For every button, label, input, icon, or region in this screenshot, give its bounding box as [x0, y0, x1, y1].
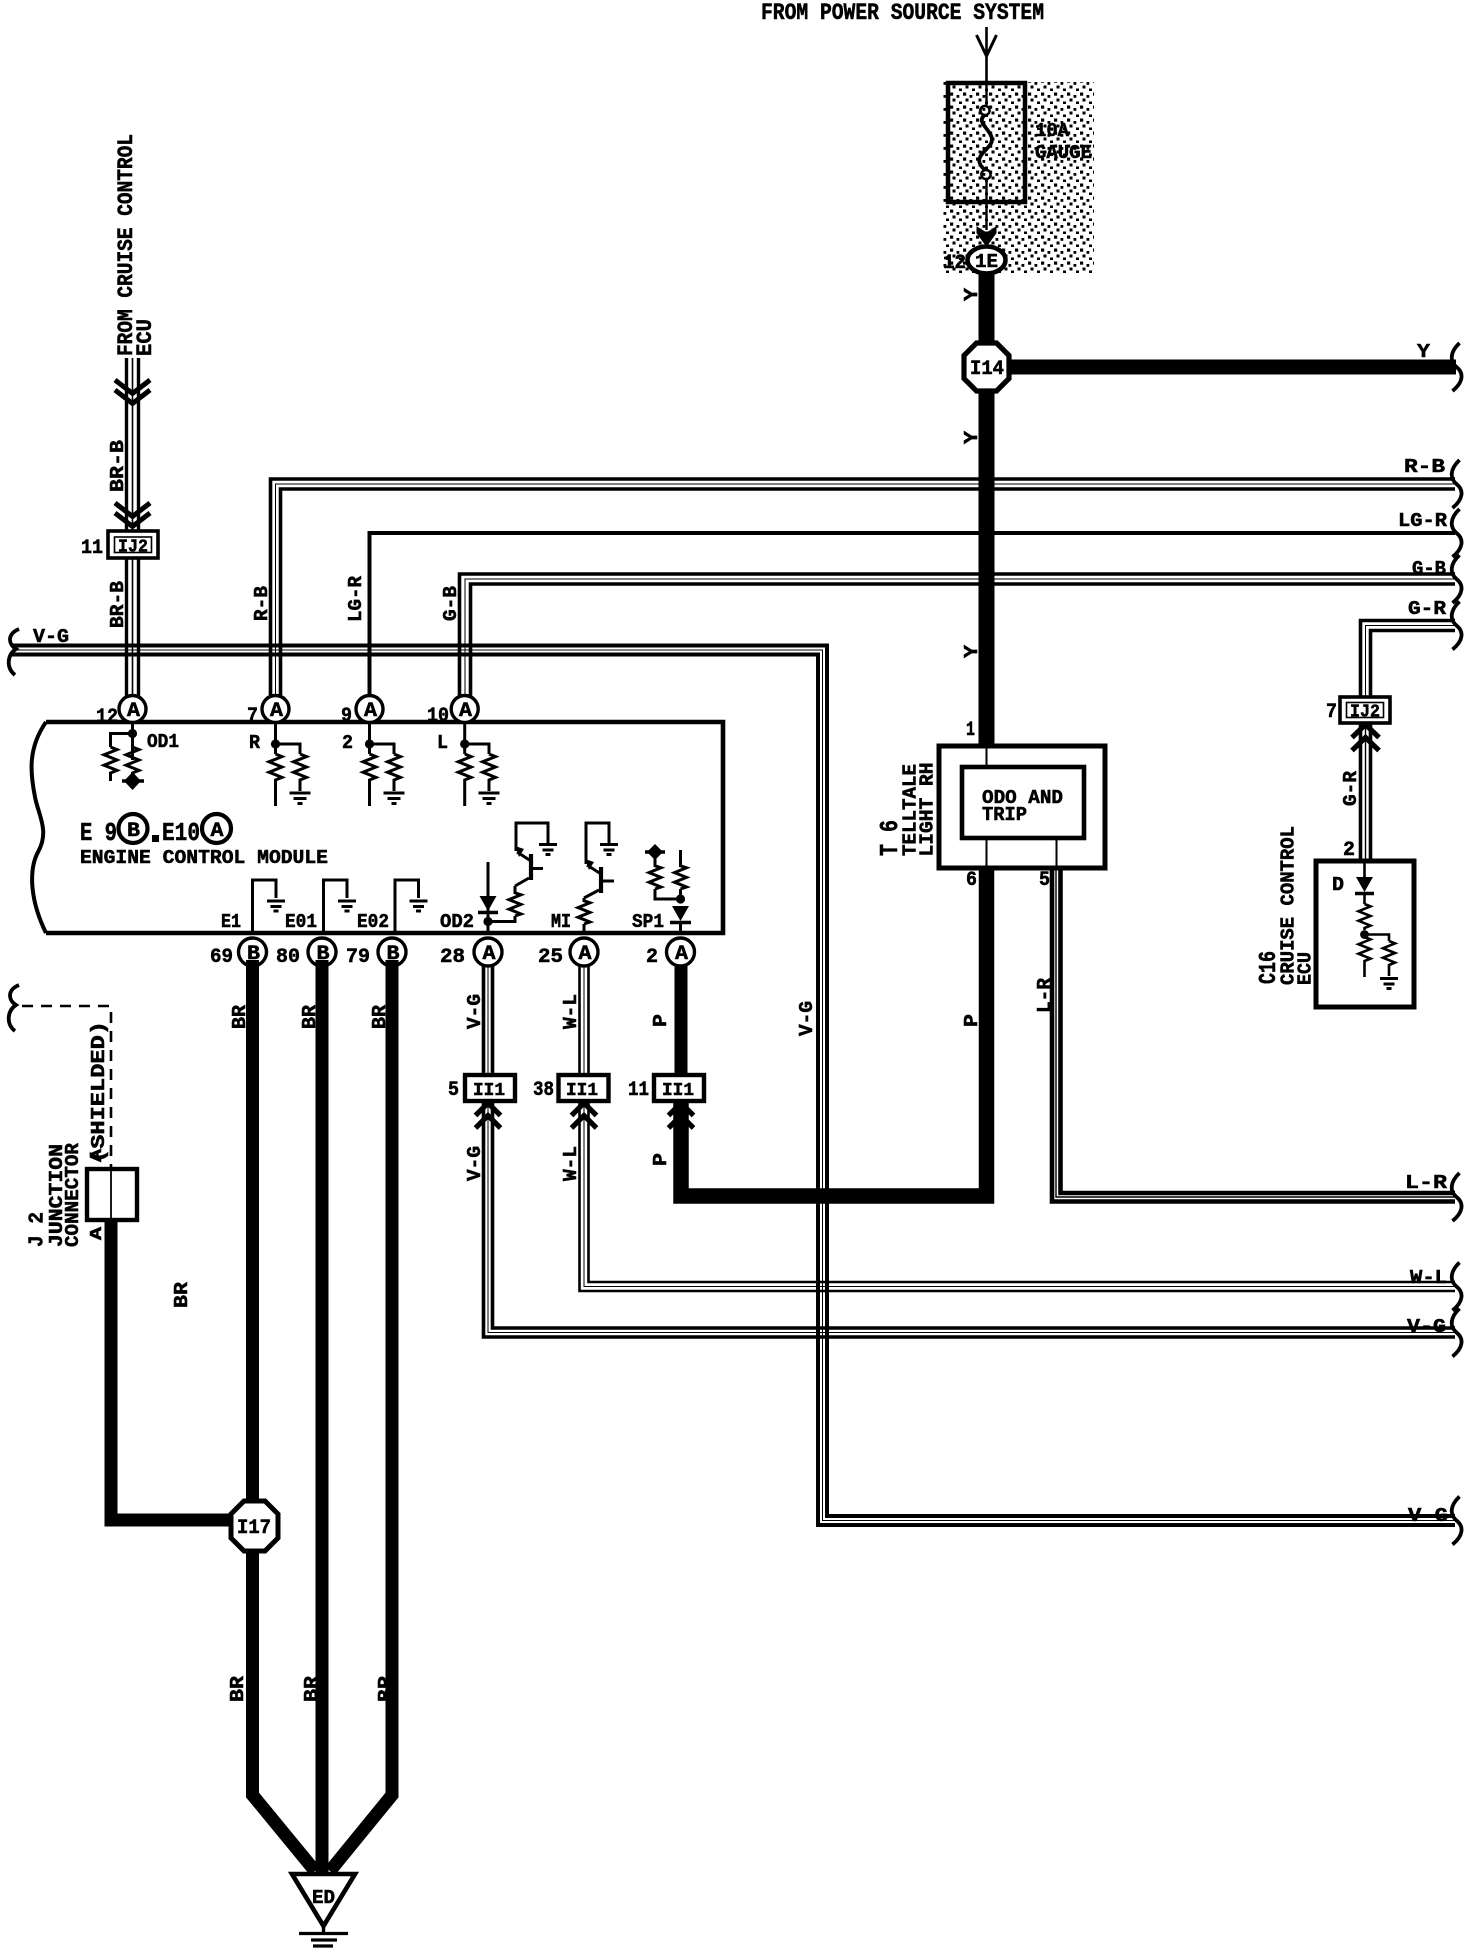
svg-text:1E: 1E: [975, 251, 998, 273]
svg-text:II1: II1: [473, 1081, 505, 1101]
resistor SP1 left: [649, 857, 661, 889]
arrow double chevron down on BR-B (upper): [115, 380, 150, 404]
wire LG-R from ECM pin 9 to right edge: [370, 533, 1456, 700]
svg-text:P: P: [650, 1014, 672, 1027]
svg-text:10A: 10A: [1035, 120, 1070, 142]
transistor Q1: [529, 854, 533, 880]
svg-text:A: A: [270, 700, 283, 723]
svg-text:R: R: [249, 732, 261, 754]
label E 9 (B) . E10 (A): [80, 814, 231, 848]
junction dot OD2: [483, 917, 492, 926]
junction box 11 IJ2: [81, 531, 158, 560]
resistor OD1 left: [104, 747, 117, 781]
SECTION-WIRES: [9, 341, 1462, 1545]
svg-text:IJ2: IJ2: [118, 538, 148, 558]
svg-text:W-L: W-L: [1410, 1267, 1447, 1289]
svg-text:80: 80: [276, 946, 300, 969]
resistor C16 right: [1383, 941, 1395, 976]
svg-text:LG-R: LG-R: [1398, 510, 1448, 532]
ground symbol at L: [479, 793, 500, 804]
break curl G-R right edge: [1452, 602, 1462, 650]
fuse F1 10A GAUGE: [948, 83, 1025, 202]
svg-text:IJ2: IJ2: [1350, 703, 1380, 723]
svg-text:V-G: V-G: [1408, 1505, 1448, 1527]
svg-text:25: 25: [538, 946, 563, 969]
wire Y thick vertical I14 to T6 pin 1: [979, 345, 995, 747]
svg-text:Y: Y: [1417, 341, 1431, 363]
ground symbol at R: [290, 793, 311, 804]
ground symbol at 2: [384, 793, 405, 804]
node MI internal circuit with transistor: [551, 823, 618, 933]
node E02 internal ground: [357, 880, 428, 933]
connector 12 (1E): [943, 247, 1006, 276]
svg-text:28: 28: [440, 946, 465, 969]
arrow double chevron up below 38 II1: [572, 1103, 597, 1128]
svg-text:(SHIELDED): (SHIELDED): [88, 1021, 110, 1163]
svg-text:BR: BR: [301, 1675, 323, 1702]
wire L-R from T6 pin 5 to right edge: [1052, 870, 1455, 1202]
SECTION-RIGHT: [875, 746, 1414, 1007]
resistor L to ground: [483, 754, 496, 791]
ground symbol E02: [410, 901, 428, 911]
svg-text:A: A: [483, 943, 496, 966]
svg-text:38: 38: [533, 1079, 554, 1102]
svg-text:5: 5: [1039, 869, 1050, 892]
svg-text:11: 11: [628, 1079, 649, 1102]
svg-text:OD2: OD2: [440, 911, 474, 933]
connector pin 12 A: [96, 696, 146, 730]
svg-text:G-R: G-R: [1408, 598, 1447, 620]
node 2 internal circuit: [342, 722, 405, 806]
arrow double chevron down on BR-B (lower): [115, 503, 150, 527]
svg-text:CONNECTOR: CONNECTOR: [62, 1142, 84, 1247]
wire V-G from ECM pin 28 to II1: [484, 960, 493, 1076]
svg-text:7: 7: [1326, 701, 1337, 724]
SECTION-ECM: [32, 696, 723, 970]
diode at SP1: [672, 906, 689, 921]
resistor C16 lower-left: [1359, 937, 1371, 977]
svg-text:ECU: ECU: [133, 319, 158, 356]
node E01 internal ground: [285, 880, 356, 933]
svg-text:R-B: R-B: [1404, 456, 1445, 478]
svg-text:1: 1: [966, 719, 975, 742]
svg-text:BR: BR: [299, 1004, 321, 1029]
wire R-B from ECM pin 7 to right edge: [271, 479, 1456, 700]
svg-text:P: P: [650, 1153, 672, 1166]
junction box 7 IJ2 right: [1326, 697, 1390, 724]
svg-text:ECU: ECU: [1295, 952, 1317, 985]
svg-text:I17: I17: [237, 1517, 271, 1540]
svg-text:9: 9: [341, 705, 352, 728]
ground symbol at Q2: [600, 845, 618, 855]
ECM box E9/E10 engine control module: [32, 722, 723, 933]
connector pin 25 A: [538, 938, 598, 969]
svg-text:L-R: L-R: [1405, 1172, 1448, 1194]
node L internal circuit: [437, 722, 500, 806]
wire G-B from ECM pin 10 to right edge: [460, 574, 1456, 700]
wire BR from ECM pin 69 to ED ground: [253, 960, 316, 1871]
ground ED triangle: [292, 1874, 355, 1946]
SECTION-TOP: [114, 0, 1094, 356]
break curl L-R right edge: [1452, 1173, 1462, 1221]
break curl W-L right edge: [1452, 1263, 1462, 1311]
resistor R pull-down: [269, 754, 282, 806]
svg-text:G-B: G-B: [440, 586, 462, 621]
break curl at shield line left: [9, 985, 19, 1031]
svg-text:FROM POWER SOURCE SYSTEM: FROM POWER SOURCE SYSTEM: [761, 0, 1044, 26]
resistor L pull-down: [458, 754, 471, 806]
node R internal circuit: [249, 722, 311, 806]
junction dot SP1: [676, 894, 685, 903]
connector pin 80 B: [276, 938, 336, 969]
wire BR from ECM pin 80 to ED ground: [316, 960, 329, 1872]
break curl V-G right edge mid: [1452, 1309, 1462, 1357]
connector pin 7 A: [247, 696, 289, 729]
svg-text:E01: E01: [285, 911, 317, 933]
wire to right resistor: [1365, 935, 1390, 942]
svg-text:SP1: SP1: [632, 911, 664, 933]
wire V-G long (left edge to right edge via vertical): [12, 646, 1455, 1526]
svg-text:BR: BR: [369, 1004, 391, 1029]
arrow double chevron up below IJ2 right: [1352, 725, 1379, 751]
svg-text:G-B: G-B: [1412, 558, 1446, 580]
component T6 telltale light RH box: [939, 746, 1105, 868]
node OD1 internal circuit: [104, 722, 179, 790]
svg-text:11: 11: [81, 537, 103, 560]
component C16 cruise control ECU box: [1316, 861, 1414, 1007]
ground symbol at Q1: [539, 845, 557, 855]
svg-text:10: 10: [427, 705, 449, 728]
svg-text:L: L: [437, 732, 448, 754]
svg-text:P: P: [961, 1014, 983, 1027]
junction dot in C16: [1360, 930, 1369, 939]
svg-text:69: 69: [210, 946, 233, 969]
transistor Q2: [599, 867, 603, 893]
wire V-G from II1 to right edge: [484, 1102, 1456, 1337]
svg-text:R-B: R-B: [251, 586, 273, 621]
svg-text:A: A: [88, 1226, 107, 1240]
wire from power source into fuse: [977, 27, 997, 83]
svg-text:BR-B: BR-B: [107, 581, 129, 628]
svg-text:D: D: [1332, 874, 1344, 896]
svg-text:E10: E10: [162, 818, 200, 848]
svg-text:TRIP: TRIP: [982, 804, 1027, 826]
break curl Y right edge: [1452, 343, 1462, 391]
svg-text:V-G: V-G: [464, 994, 486, 1029]
arrow double chevron up below 5 II1: [476, 1103, 501, 1128]
svg-text:E 9: E 9: [80, 818, 117, 848]
junction dot 2: [365, 739, 374, 748]
junction dot L: [460, 739, 469, 748]
ground symbol E01: [338, 901, 356, 911]
node OD2 internal circuit with transistor: [440, 823, 557, 933]
svg-text:A: A: [364, 700, 377, 723]
svg-text:Y: Y: [961, 644, 983, 658]
wire BR-B from cruise control ECU to IJ2 (triple line): [127, 358, 139, 702]
svg-text:79: 79: [346, 946, 370, 969]
svg-text:A: A: [459, 700, 472, 723]
wire P thick from T6 pin 6 down, left, up to II1: [681, 869, 987, 1196]
svg-text:5: 5: [448, 1079, 459, 1102]
wire to left resistor: [111, 734, 133, 748]
junction box 38 II1: [533, 1075, 609, 1102]
resistor R to ground: [294, 754, 307, 791]
wire W-L from II1 to right edge: [580, 1102, 1456, 1291]
svg-text:LIGHT RH: LIGHT RH: [917, 763, 939, 857]
wire G-R from IJ2 down to C16 pin 2: [1361, 722, 1371, 861]
svg-text:2: 2: [646, 946, 658, 969]
junction box 11 II1: [628, 1075, 704, 1102]
svg-text:Y: Y: [961, 430, 983, 444]
wire Y thick horizontal I14 to right edge: [1008, 360, 1456, 375]
label 10A GAUGE: [1035, 120, 1092, 164]
resistor OD1 right: [126, 747, 139, 776]
resistor 2 to ground: [388, 754, 401, 791]
svg-text:12: 12: [96, 706, 118, 729]
connector pin 79 B: [346, 938, 406, 969]
connector pin 9 A: [341, 696, 383, 729]
resistor SP1 right: [679, 889, 682, 899]
svg-text:B: B: [127, 820, 140, 843]
svg-text:ENGINE CONTROL MODULE: ENGINE CONTROL MODULE: [80, 847, 328, 869]
SECTION-BOTTOM: [9, 960, 397, 1946]
svg-text:BR-B: BR-B: [107, 440, 129, 492]
junction dot R: [271, 739, 280, 748]
arrow double chevron up below 11 II1: [669, 1103, 694, 1128]
break curl LG-R right edge: [1452, 509, 1462, 557]
svg-text:II1: II1: [662, 1081, 694, 1101]
junction dot OD1: [128, 729, 137, 738]
svg-text:E1: E1: [221, 911, 241, 933]
resistor 2 pull-down: [363, 754, 376, 806]
svg-text:W-L: W-L: [560, 994, 582, 1029]
svg-text:E02: E02: [357, 911, 389, 933]
break curl R-B right edge: [1452, 460, 1462, 508]
svg-text:I14: I14: [970, 358, 1004, 381]
svg-text:7: 7: [247, 705, 258, 728]
svg-text:ED: ED: [312, 1887, 335, 1909]
fuse body box: [948, 83, 1025, 202]
svg-text:A: A: [579, 943, 592, 966]
connector pin 28 A: [440, 938, 502, 969]
svg-text:6: 6: [966, 869, 977, 892]
break curl G-B right edge: [1452, 555, 1462, 603]
dashed shield line from break to J2: [22, 1006, 111, 1169]
svg-text:BR: BR: [375, 1675, 397, 1702]
junction box 5 II1: [448, 1075, 515, 1102]
octagon junction I14: [964, 343, 1009, 391]
wire P thick from ECM pin 2 to II1: [675, 960, 688, 1076]
splice diamond OD1: [122, 779, 144, 782]
svg-text:A: A: [211, 820, 224, 843]
ground symbol E1: [267, 901, 285, 911]
svg-text:II1: II1: [566, 1081, 598, 1101]
svg-text:W-L: W-L: [560, 1146, 582, 1181]
node E1 internal ground: [221, 880, 285, 933]
connector pin 69 B: [210, 938, 267, 969]
wire fuse to connector 1E: [977, 202, 996, 246]
svg-text:A: A: [675, 943, 688, 966]
component ODO AND TRIP inner box: [962, 767, 1084, 838]
connector pin 2 A: [646, 938, 695, 969]
resistor to transistor Q2: [578, 898, 590, 924]
wire BR from ECM pin 79 to ED ground: [330, 960, 392, 1871]
svg-text:LG-R: LG-R: [345, 575, 367, 622]
svg-text:V-G: V-G: [796, 1001, 818, 1036]
svg-text:L-R: L-R: [1034, 977, 1056, 1013]
svg-text:A: A: [88, 1148, 107, 1162]
junction connector J2 box: [87, 1169, 137, 1220]
break curl V-G bottom right: [1452, 1497, 1462, 1545]
svg-text:BR: BR: [227, 1675, 249, 1702]
splice diamond SP1: [645, 850, 665, 853]
svg-text:Y: Y: [961, 287, 983, 301]
svg-text:V-G: V-G: [464, 1146, 486, 1181]
svg-text:V-G: V-G: [33, 626, 69, 648]
stipple shading around fuse: [943, 82, 1094, 274]
svg-text:G-R: G-R: [1340, 770, 1362, 806]
svg-text:12: 12: [943, 252, 966, 275]
ground symbol in C16: [1380, 979, 1398, 989]
wire Y oval to I14: [979, 273, 995, 345]
wire W-L from ECM pin 25 to II1: [580, 960, 589, 1076]
svg-text:GAUGE: GAUGE: [1035, 142, 1092, 164]
wire G-R from IJ2 up to right edge: [1361, 621, 1456, 698]
fuse element: [985, 83, 987, 105]
svg-text:2: 2: [342, 732, 353, 754]
diode D inside C16: [1332, 861, 1374, 896]
svg-text:BR: BR: [171, 1281, 193, 1308]
wire BR from J2 to I17: [111, 1220, 230, 1520]
svg-text:BR: BR: [229, 1004, 251, 1029]
node SP1 internal circuit with diode and resistors: [632, 844, 691, 933]
svg-text:MI: MI: [551, 911, 571, 933]
connector pin 10 A: [427, 696, 478, 729]
diode at OD2: [480, 896, 497, 911]
svg-text:A: A: [127, 700, 140, 723]
svg-text:OD1: OD1: [147, 731, 179, 753]
resistor chain inside C16: [1359, 894, 1399, 989]
resistor to transistor Q1: [488, 916, 515, 922]
break curl V-G left edge: [9, 629, 19, 675]
svg-text:V-G: V-G: [1407, 1316, 1446, 1338]
octagon junction I17: [231, 1501, 278, 1551]
